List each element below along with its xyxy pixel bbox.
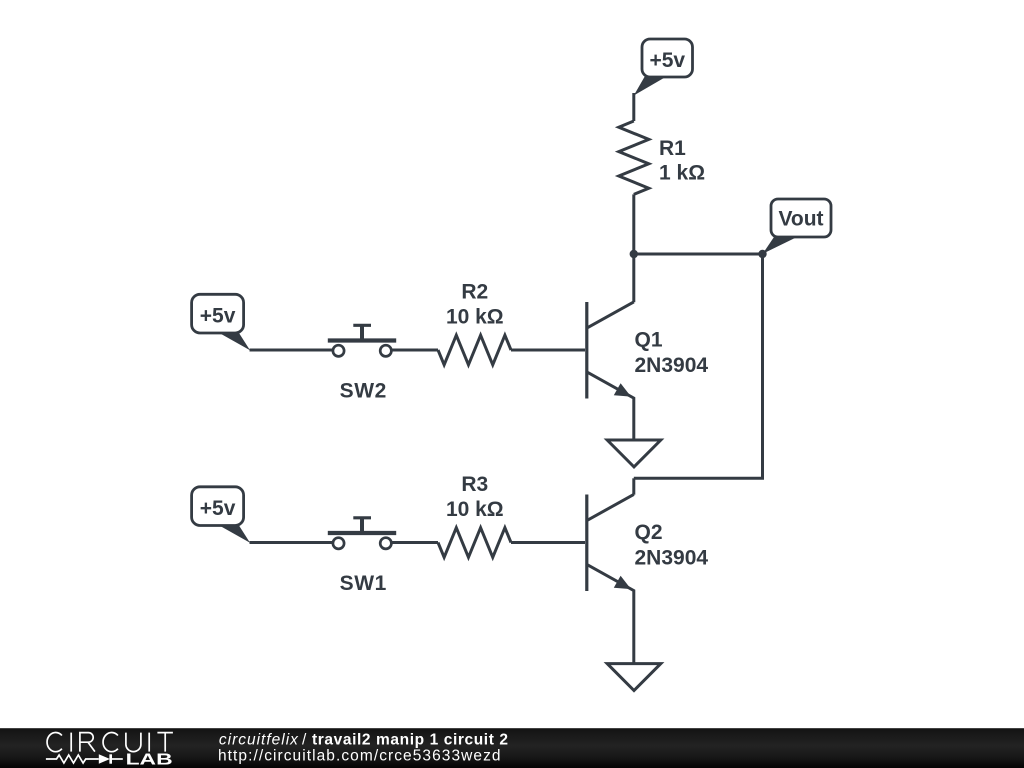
transistor Q1 2N3904 bbox=[587, 302, 709, 440]
wire base of Q2 to R3 bbox=[511, 541, 585, 544]
svg-text:SW2: SW2 bbox=[340, 379, 387, 402]
wire SW2 to R2 bbox=[391, 349, 438, 352]
svg-text:R2: R2 bbox=[461, 280, 488, 303]
wire Vout node down and left to Q2 collector bbox=[634, 254, 763, 478]
pushbutton switch SW1 bbox=[328, 518, 396, 595]
wire output node to Vout node bbox=[634, 253, 763, 256]
wire +5v to SW2 bbox=[250, 349, 334, 352]
svg-text:Q1: Q1 bbox=[635, 329, 663, 352]
svg-text:10 kΩ: 10 kΩ bbox=[446, 498, 504, 521]
net label Vout bbox=[763, 199, 831, 254]
svg-text:1 kΩ: 1 kΩ bbox=[659, 162, 705, 185]
CircuitLab logo waveform (resistor + diode) bbox=[46, 754, 123, 763]
svg-text:R1: R1 bbox=[659, 137, 686, 160]
net label +5v (feeding SW2) bbox=[192, 294, 250, 350]
wire base of Q1 to R2 bbox=[511, 349, 585, 352]
transistor Q2 2N3904 bbox=[587, 494, 709, 663]
ground (Q1 emitter) bbox=[607, 440, 661, 467]
resistor R1 bbox=[619, 121, 705, 194]
svg-text:Q2: Q2 bbox=[635, 521, 663, 544]
svg-text:+5v: +5v bbox=[200, 497, 236, 520]
wire +5v to SW1 bbox=[250, 541, 334, 544]
svg-text:SW1: SW1 bbox=[340, 572, 387, 595]
svg-text:Vout: Vout bbox=[778, 208, 823, 231]
svg-text:2N3904: 2N3904 bbox=[635, 547, 709, 570]
pushbutton switch SW2 bbox=[328, 325, 396, 402]
wire Q1 collector vertical bbox=[632, 254, 635, 302]
svg-text:http://circuitlab.com/crce5363: http://circuitlab.com/crce53633wezd bbox=[218, 747, 501, 764]
wire from +5v tail to R1 top bbox=[632, 93, 635, 121]
resistor R3 bbox=[438, 473, 511, 558]
ground (Q2 emitter) bbox=[607, 664, 661, 691]
wire SW1 to R3 bbox=[391, 541, 438, 544]
node junction (Vout) bbox=[758, 250, 766, 258]
CircuitLab logo wordmark CIRCUIT bbox=[47, 733, 173, 752]
svg-text:circuitfelix: circuitfelix bbox=[219, 731, 299, 748]
svg-text:2N3904: 2N3904 bbox=[635, 354, 709, 377]
svg-text:+5v: +5v bbox=[200, 304, 236, 327]
wire R1 bottom to output node bbox=[632, 194, 635, 254]
wire Q2 collector vertical bbox=[632, 478, 635, 494]
svg-text:10 kΩ: 10 kΩ bbox=[446, 305, 504, 328]
net label +5v (feeding SW1) bbox=[192, 487, 250, 543]
svg-text:+5v: +5v bbox=[649, 49, 685, 72]
node junction (R1 / Q1 collector) bbox=[630, 250, 638, 258]
svg-text:LAB: LAB bbox=[126, 752, 173, 768]
resistor R2 bbox=[438, 280, 511, 365]
net label +5v (top rail feeding R1) bbox=[634, 39, 693, 96]
svg-text:R3: R3 bbox=[461, 473, 488, 496]
svg-text:travail2 manip 1 circuit 2: travail2 manip 1 circuit 2 bbox=[312, 731, 508, 748]
svg-text:/: / bbox=[302, 731, 307, 748]
